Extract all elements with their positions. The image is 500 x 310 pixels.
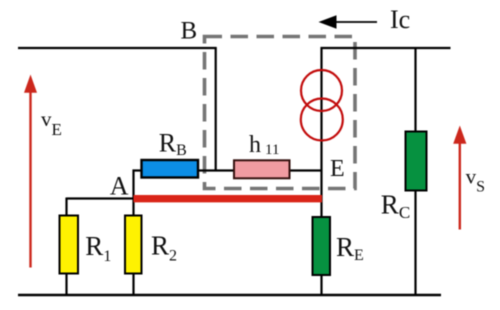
wire h11 to node E bbox=[290, 169, 323, 171]
resistor R1 (yellow) bbox=[60, 216, 79, 274]
wire node A horizontal (R1 to R2) bbox=[67, 197, 135, 199]
wire node B vertical drop bbox=[215, 47, 217, 171]
wire top-left horizontal (input rail to node B) bbox=[18, 47, 217, 49]
svg-text:Ic: Ic bbox=[390, 5, 410, 34]
controlled current source (two red circles) bbox=[301, 70, 343, 141]
wire collector/emitter vertical through current source to RE bbox=[320, 47, 322, 295]
svg-text:RC: RC bbox=[381, 190, 410, 223]
svg-text:h11: h11 bbox=[249, 132, 279, 158]
svg-text:A: A bbox=[110, 172, 129, 201]
wire R1 branch vertical bbox=[65, 198, 67, 296]
transistor model dashed box bbox=[205, 37, 356, 189]
svg-text:E: E bbox=[330, 156, 345, 182]
svg-text:RB: RB bbox=[159, 128, 187, 159]
resistor h11 (pink) bbox=[234, 160, 290, 178]
arrow Ic (black, pointing left) bbox=[319, 15, 378, 29]
svg-text:vS: vS bbox=[466, 165, 485, 196]
svg-text:R2: R2 bbox=[151, 231, 177, 265]
wire thick red emitter link (A to E branch) bbox=[134, 195, 323, 202]
wire RB to h11 bbox=[198, 169, 235, 171]
resistor RC (green) bbox=[406, 132, 427, 191]
arrow vE (red, pointing up) bbox=[24, 75, 37, 268]
wire top-right horizontal (collector rail) bbox=[321, 47, 451, 49]
svg-text:R1: R1 bbox=[85, 231, 111, 265]
resistor RB (blue) bbox=[142, 160, 199, 178]
svg-text:RE: RE bbox=[336, 232, 364, 264]
svg-text:vE: vE bbox=[41, 107, 62, 139]
wire RB left lead and drop to node A bbox=[134, 171, 142, 200]
wire RC branch vertical bbox=[414, 48, 416, 295]
arrow vS (red, pointing up) bbox=[453, 126, 466, 230]
svg-text:B: B bbox=[181, 18, 198, 45]
resistor RE (green) bbox=[313, 217, 331, 275]
resistor R2 (yellow) bbox=[125, 216, 142, 274]
wire bottom ground rail bbox=[18, 294, 441, 296]
wire R2 branch vertical bbox=[132, 198, 134, 296]
